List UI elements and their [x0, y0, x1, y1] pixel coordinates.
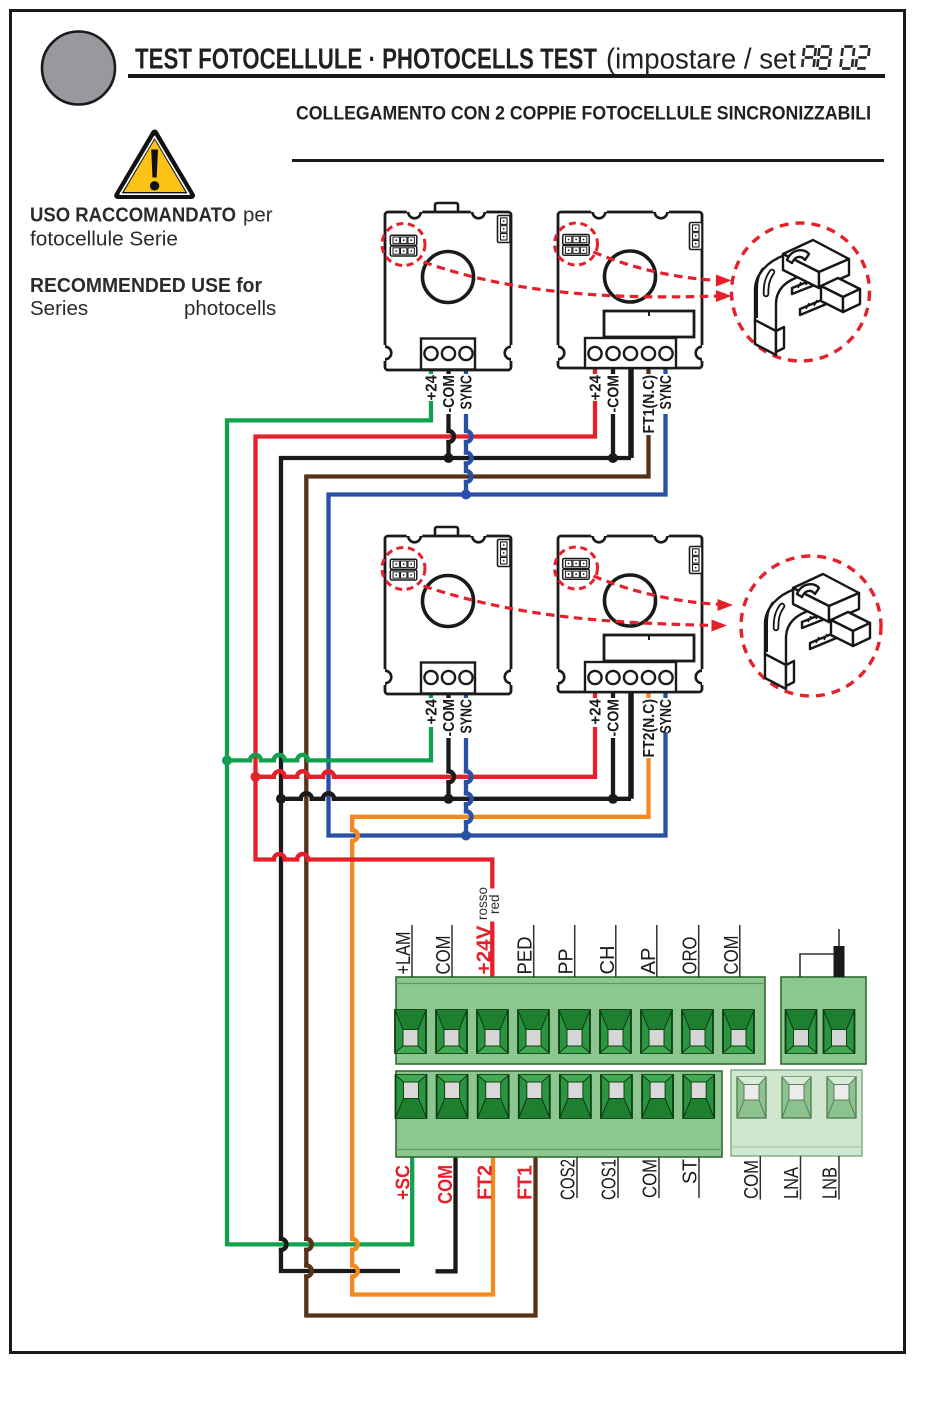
svg-text:Series: Series	[30, 297, 88, 320]
wire COM TX1 drop	[449, 414, 455, 458]
svg-text:photocells: photocells	[184, 297, 276, 320]
wire +24 TX1 stub	[429, 368, 433, 374]
junction COM rail2 right	[608, 794, 618, 804]
arrow RX2 jumper to detail	[594, 576, 723, 605]
svg-text:+SC: +SC	[393, 1165, 415, 1200]
svg-text:+24: +24	[588, 699, 605, 725]
svg-text:SYNC: SYNC	[658, 699, 675, 734]
wire +24 TX2 stub	[429, 692, 433, 698]
label board PP at x=574.7	[574, 925, 576, 977]
terminal block TX1	[421, 339, 475, 370]
svg-text:LNB: LNB	[820, 1167, 842, 1199]
jumper highlight dashed circle RX1	[555, 223, 598, 265]
junction COM main 2	[276, 794, 286, 804]
label board CH at x=615.8	[615, 925, 617, 977]
wire FT1 brown run	[306, 435, 648, 1316]
relay box RX1	[604, 311, 694, 337]
svg-text:LNA: LNA	[781, 1166, 803, 1199]
svg-text:(impostare / set: (impostare / set	[606, 44, 796, 76]
junction SYNC bus 1	[461, 490, 471, 500]
svg-text:COM: COM	[721, 936, 743, 975]
terminal block RX2	[585, 662, 676, 692]
svg-text:COLLEGAMENTO CON 2 COPPIE FOTO: COLLEGAMENTO CON 2 COPPIE FOTOCELLULE SI…	[296, 103, 871, 125]
jumper highlight dashed circle RX2	[555, 547, 598, 589]
svg-text:COS2: COS2	[558, 1159, 580, 1200]
arrow TX2 jumper to detail	[424, 586, 717, 626]
junction COM rail1 right	[608, 453, 618, 463]
label board COM at x=452.0	[451, 925, 453, 977]
junction +24 green pair2	[222, 755, 232, 765]
wire COM RX1 drop	[611, 414, 615, 458]
svg-text:fotocellule Serie: fotocellule Serie	[30, 228, 178, 251]
label board AP at x=656.8	[656, 925, 658, 977]
wire SYNC TX1 to sync bus	[466, 414, 472, 495]
lens circle RX1	[605, 251, 656, 302]
connector TX1	[498, 216, 511, 243]
wire SYNC main bus	[329, 414, 666, 836]
arrow TX1 jumper to detail	[424, 262, 721, 297]
wire SYNC TX2 to sync bus	[466, 738, 472, 836]
pale terminal block COM LNA LNB	[731, 1070, 862, 1156]
label board COM pale block	[759, 1156, 761, 1200]
wire COM TX2 drop	[449, 738, 455, 799]
svg-text:-COM: -COM	[441, 375, 458, 413]
lens circle RX2	[605, 575, 656, 626]
jumper block RX1	[563, 235, 590, 245]
warning triangle icon	[118, 133, 192, 196]
wire relay contact RX2 thick	[628, 692, 634, 799]
jumper highlight dashed circle TX1	[382, 224, 425, 266]
svg-text:FT1(N.C): FT1(N.C)	[641, 375, 658, 434]
wire +24 red rail pair2	[256, 727, 596, 777]
wire hop crossings overlay	[466, 430, 472, 443]
svg-text:TEST FOTOCELLULE · PHOTOCELLS: TEST FOTOCELLULE · PHOTOCELLS TEST	[135, 44, 597, 76]
jumper cap detail circle 1	[732, 223, 870, 361]
svg-text:PED: PED	[515, 937, 537, 975]
jumper block TX1	[390, 235, 417, 245]
jumper highlight dashed circle TX2	[382, 548, 425, 590]
wire SYNC RX1 stub	[663, 368, 667, 374]
svg-text:+24V: +24V	[474, 925, 496, 975]
label board COM	[658, 1157, 660, 1198]
antenna	[800, 954, 834, 977]
svg-text:-COM: -COM	[606, 375, 623, 413]
wire COM RX2 drop	[611, 738, 615, 799]
svg-text:+24: +24	[588, 375, 605, 401]
wire COM to board	[436, 1157, 456, 1271]
wire FT1 stub at RX1	[646, 368, 650, 374]
svg-text:COS1: COS1	[599, 1159, 621, 1200]
svg-text:COM: COM	[433, 936, 455, 975]
label board COS2	[576, 1157, 578, 1198]
wire SYNC RX2 stub	[663, 692, 667, 698]
jumper cap drawing 2	[765, 574, 870, 689]
svg-text:FT2(N.C): FT2(N.C)	[641, 699, 658, 758]
junction COM rail2 left	[444, 794, 454, 804]
label board ORO at x=698.7	[698, 925, 700, 977]
svg-text:SYNC: SYNC	[658, 375, 675, 410]
wire COM RX1 stub	[611, 368, 615, 374]
svg-text:FT2: FT2	[475, 1165, 497, 1200]
svg-text:AP: AP	[638, 948, 660, 975]
svg-text:RECOMMENDED USE for: RECOMMENDED USE for	[30, 274, 262, 297]
svg-text:ORO: ORO	[680, 937, 702, 975]
photocell module TX2 body	[377, 527, 519, 694]
terminal block RX1	[585, 338, 676, 368]
svg-text:+24: +24	[424, 699, 441, 725]
junction +24 red pair2	[251, 772, 261, 782]
photocell module RX1 body	[550, 204, 710, 368]
svg-text:FT1: FT1	[515, 1165, 537, 1200]
wire +24V red to board	[490, 922, 494, 978]
svg-text:red: red	[487, 894, 502, 914]
svg-text:+24: +24	[424, 375, 441, 401]
grey circle marker	[42, 32, 115, 105]
wire COM RX2 stub	[611, 692, 615, 698]
svg-text:-COM: -COM	[606, 699, 623, 737]
lens circle TX1	[423, 252, 474, 303]
label board LNB pale block	[838, 1156, 840, 1200]
radio terminal block	[781, 977, 866, 1064]
relay box RX2	[604, 635, 694, 661]
wire +24 RX2 stub	[593, 692, 597, 698]
svg-text:-COM: -COM	[441, 699, 458, 737]
wire +24 green main	[227, 401, 431, 1244]
seven segment display "A8 02"	[802, 47, 869, 69]
photocell module TX1 body	[377, 203, 519, 370]
svg-text:ST: ST	[680, 1159, 702, 1184]
junction COM rail1 left	[444, 453, 454, 463]
svg-text:SYNC: SYNC	[459, 699, 476, 734]
wire +24 red main	[256, 401, 596, 889]
connector TX2	[498, 540, 511, 567]
junction SYNC bus 2	[461, 831, 471, 841]
photocell module RX2 body	[550, 528, 710, 692]
wire +24 RX1 stub	[593, 368, 597, 374]
svg-text:COM: COM	[640, 1159, 662, 1198]
wire relay contact RX1 thick	[628, 368, 634, 458]
label board ST	[698, 1157, 700, 1198]
subtitle underline	[292, 159, 884, 162]
svg-text:PP: PP	[556, 949, 578, 975]
control board top terminal strip	[395, 977, 765, 1064]
wire COM TX1 stub	[446, 368, 450, 374]
svg-text:+LAM: +LAM	[393, 932, 415, 975]
label board COM at x=739.8	[739, 925, 741, 977]
title underline	[128, 74, 885, 78]
svg-text:CH: CH	[597, 946, 619, 975]
wire COM TX2 stub	[446, 692, 450, 698]
wire COM rail pair2	[281, 793, 631, 799]
label board PED at x=533.7	[533, 925, 535, 977]
wire SYNC TX1 stub	[464, 368, 468, 374]
arrow RX1 jumper to detail	[594, 252, 721, 281]
label board LNA pale block	[800, 1156, 802, 1200]
jumper block RX2	[563, 559, 590, 569]
wire +24 green rail pair2	[227, 727, 431, 760]
label board +LAM at x=412.0	[411, 925, 413, 977]
terminal block TX2	[421, 663, 475, 694]
wire COM rail pair1	[281, 458, 631, 1271]
svg-text:COM: COM	[435, 1165, 457, 1204]
connector RX1	[690, 223, 703, 250]
jumper block TX2	[390, 559, 417, 569]
svg-text:SYNC: SYNC	[459, 375, 476, 410]
wire FT2 stub at RX2	[646, 692, 650, 698]
label board COS1	[617, 1157, 619, 1198]
lens circle TX2	[423, 576, 474, 627]
control board bottom terminal strip	[396, 1071, 723, 1157]
wire FT2 orange run	[352, 758, 648, 1295]
svg-text:COM: COM	[741, 1160, 763, 1199]
wire SYNC TX2 stub	[464, 692, 468, 698]
jumper cap drawing 1	[755, 240, 860, 355]
connector RX2	[690, 547, 703, 574]
jumper cap detail circle 2	[741, 556, 881, 696]
